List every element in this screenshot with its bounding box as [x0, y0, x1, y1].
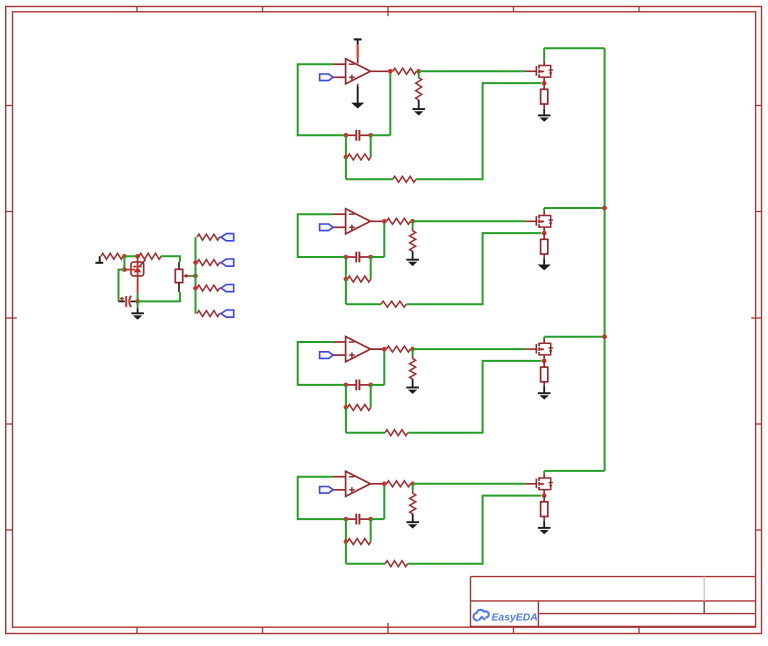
resistor Rs1 (series feedback)	[393, 176, 416, 182]
resistor Rs3 (series feedback)	[385, 430, 408, 436]
wire gate node to MOSFET gate	[413, 348, 526, 350]
node B junction	[135, 254, 140, 259]
wire drain to rail	[543, 208, 545, 211]
wire stub left node down	[345, 257, 347, 279]
wire gate node to MOSFET gate	[419, 70, 526, 72]
resistor R_in (left top)	[101, 253, 123, 259]
wire output drop vertical	[383, 484, 385, 519]
wire gate node down stub	[412, 349, 414, 356]
wire stub right node down	[370, 257, 372, 279]
drain rail wire	[544, 47, 604, 49]
ground (divider R stage 1)	[412, 109, 425, 115]
drain rail wire	[544, 470, 604, 472]
ground arrow (sense R stage 2)	[538, 265, 551, 271]
capacitor C4 (feedback)	[346, 514, 371, 525]
wire row 1	[220, 236, 222, 238]
resistor Rf3 (parallel feedback)	[348, 404, 371, 410]
net flag ISET2	[221, 259, 234, 266]
junction gate node	[410, 347, 415, 352]
wire - input loop	[298, 342, 346, 385]
junction cap left	[344, 255, 349, 260]
wire stub right node down	[370, 519, 372, 542]
wire to ground	[412, 379, 414, 387]
wire row 4	[220, 313, 222, 315]
net flag ISET3	[221, 285, 234, 292]
wire output drop vertical	[389, 71, 391, 135]
resistor Rsen1 (sense, box style)	[541, 83, 548, 104]
op-amp U3	[333, 337, 371, 362]
transistor Q2 (N-MOSFET)	[525, 211, 553, 233]
junction source	[542, 493, 547, 498]
wire gate node to MOSFET gate	[413, 483, 526, 485]
capacitor C3 (feedback)	[346, 380, 371, 391]
TL431 U1	[124, 256, 145, 293]
node A junction	[122, 254, 127, 259]
wire bottom row right + up to source sense	[416, 83, 542, 179]
net flag SET2 (+ input)	[320, 224, 334, 231]
resistor R2 (left top second)	[139, 253, 161, 259]
junction source	[542, 81, 547, 86]
resistor Rsen4 (sense, box style)	[541, 496, 548, 517]
junction row3	[193, 286, 198, 291]
wire node A to node B	[124, 255, 137, 257]
wire - input loop	[298, 214, 346, 257]
wire row 3	[220, 287, 222, 289]
wire TL431 anode to bottom junction	[137, 294, 139, 302]
junction cap left	[344, 383, 349, 388]
resistor Rg1 (gate series)	[393, 68, 417, 74]
op-amp output pin	[370, 220, 386, 222]
wire gate node down stub	[418, 71, 420, 78]
op-amp U1	[333, 59, 371, 84]
resistor R13 (set row 3)	[197, 285, 220, 291]
junction feedback resistor left	[344, 155, 349, 160]
wire sense resistor to ground	[543, 382, 545, 387]
wire output drop vertical	[383, 221, 385, 257]
op-amp output pin	[370, 483, 386, 485]
net flag SET4 (+ input)	[320, 487, 334, 494]
wire gate node down stub	[412, 484, 414, 491]
ground (divider R stage 4)	[406, 522, 419, 528]
ground (divider R stage 3)	[406, 388, 419, 394]
main drain bus wire	[604, 48, 606, 471]
resistor Rf4 (parallel feedback)	[348, 539, 371, 545]
net flag ISET4	[221, 310, 234, 317]
transistor Q4 (N-MOSFET)	[525, 473, 553, 495]
junction source	[542, 231, 547, 236]
wire bottom row right + up to source sense	[406, 233, 541, 304]
drain rail wire	[544, 336, 604, 338]
junction output	[382, 482, 387, 487]
drain rail wire	[544, 207, 604, 209]
wire output drop vertical	[383, 349, 385, 385]
junction output	[382, 219, 387, 224]
wire cap right to output drop	[371, 518, 385, 520]
wire wiper to distribution node	[190, 275, 196, 277]
ground (sense R stage 4)	[538, 528, 551, 534]
junction gate node	[410, 219, 415, 224]
resistor Rsen2 (sense, box style)	[541, 233, 548, 254]
potentiometer RP1	[175, 262, 190, 292]
op-amp output pin	[370, 348, 386, 350]
junction feedback resistor left	[344, 277, 349, 282]
wire bottom row right + up to source sense	[408, 496, 542, 564]
resistor Rs4 (series feedback)	[385, 561, 407, 567]
resistor Rf1 (parallel feedback)	[348, 154, 371, 160]
junction output	[382, 347, 387, 352]
wire - input loop	[298, 477, 346, 519]
wire row 2	[220, 262, 222, 264]
junction cap left	[344, 133, 349, 138]
junction feedback resistor left	[344, 405, 349, 410]
wire left node to bottom row	[345, 279, 347, 304]
junction cap right	[368, 517, 373, 522]
wire bottom row left	[346, 563, 385, 565]
net flag ISET1	[221, 234, 234, 241]
net flag SET1 (+ input)	[320, 74, 334, 81]
wire cap right to output drop	[371, 384, 385, 386]
ground (sense R stage 3)	[538, 393, 551, 399]
EasyEDA logo cloud icon	[473, 610, 488, 621]
resistor Rf2 (parallel feedback)	[348, 276, 371, 282]
wire drain to rail	[543, 471, 545, 473]
net flag SET3 (+ input)	[320, 352, 334, 359]
wire junction down to ground	[137, 301, 139, 308]
wire cap right to output drop	[371, 256, 385, 258]
ref node junction	[122, 267, 127, 272]
op-amp output pin	[370, 70, 392, 72]
capacitor C1 (feedback)	[346, 130, 371, 141]
wire stub left node down	[345, 519, 347, 542]
wire gate node down stub	[412, 221, 414, 228]
wire bottom row right + up to source sense	[408, 361, 542, 433]
resistor Rg2 (gate series)	[387, 218, 411, 224]
junction cap right	[368, 383, 373, 388]
resistor R12 (set row 2)	[197, 260, 220, 266]
resistor Rd1 (divider to ground)	[416, 78, 422, 100]
wire left node to bottom row	[345, 407, 347, 432]
ground (left circuit)	[131, 313, 144, 319]
wire ref node left and down	[119, 270, 125, 302]
wiper junction	[193, 274, 198, 279]
junction gate node	[416, 69, 421, 74]
wire - input loop	[298, 64, 346, 135]
wire sense resistor to ground	[543, 517, 545, 522]
wire drain to rail	[543, 337, 545, 339]
wire stub right node down	[370, 135, 372, 157]
junction cap right	[368, 133, 373, 138]
wire bottom row left	[346, 178, 393, 180]
op-amp U4	[333, 471, 371, 496]
wire drain to rail	[543, 48, 545, 61]
transistor Q3 (N-MOSFET)	[525, 339, 553, 361]
wire node A down to ref pin	[123, 256, 125, 269]
junction source	[542, 359, 547, 364]
op-amp U2	[333, 209, 371, 234]
wire stub left node down	[345, 385, 347, 408]
wire cap right to output drop	[371, 134, 391, 136]
resistor Rd3 (divider to ground)	[410, 359, 416, 380]
resistor Rd2 (divider to ground)	[410, 231, 416, 252]
resistor Rg3 (gate series)	[387, 346, 411, 352]
wire to ground	[418, 100, 420, 109]
junction feedback resistor left	[344, 539, 349, 544]
wire left node to bottom row	[345, 157, 347, 179]
transistor Q1 (N-MOSFET)	[525, 61, 553, 83]
wire stub left node down	[345, 135, 347, 157]
svg-text:EasyEDA: EasyEDA	[492, 613, 538, 624]
resistor Rg4 (gate series)	[387, 481, 411, 487]
wire left node to bottom row	[345, 542, 347, 564]
wire to ground	[412, 514, 414, 522]
resistor Rs2 (series feedback)	[381, 301, 406, 307]
power wire (red)	[357, 45, 359, 58]
junction bus stage3	[602, 334, 607, 339]
power supply bar above op-amp	[354, 39, 362, 44]
op-amp V+ pin	[357, 58, 359, 64]
wire to potentiometer top	[161, 256, 180, 262]
op-amp V- pin	[357, 84, 359, 87]
wire bottom row left	[346, 432, 385, 434]
bottom junction	[135, 299, 140, 304]
wire bottom row left	[346, 303, 381, 305]
wire stub right node down	[370, 385, 372, 408]
junction gate node	[410, 482, 415, 487]
ground (sense R stage 1)	[538, 115, 551, 121]
title block	[471, 577, 756, 627]
capacitor C2 (feedback)	[346, 252, 371, 263]
polarized capacitor C1	[119, 296, 138, 307]
junction output	[388, 69, 393, 74]
wire bottom row to potentiometer bottom	[138, 292, 180, 301]
resistor Rd4 (divider to ground)	[410, 493, 416, 514]
junction cap left	[344, 517, 349, 522]
ground arrow (op-amp V-)	[351, 103, 364, 109]
distribution vertical wire	[195, 237, 197, 313]
wire sense resistor to ground	[543, 254, 545, 259]
resistor R14 (set row 4)	[197, 311, 220, 317]
wire gate node to MOSFET gate	[413, 220, 526, 222]
junction cap right	[368, 255, 373, 260]
resistor Rsen3 (sense, box style)	[541, 361, 548, 382]
wire sense resistor to ground	[543, 104, 545, 109]
power bar symbol (left supply)	[95, 256, 103, 263]
ground (divider R stage 2)	[406, 260, 419, 266]
resistor R11 (set row 1)	[197, 234, 220, 240]
wire to ground	[412, 251, 414, 259]
junction bus stage2	[602, 206, 607, 211]
junction row2	[193, 260, 198, 265]
